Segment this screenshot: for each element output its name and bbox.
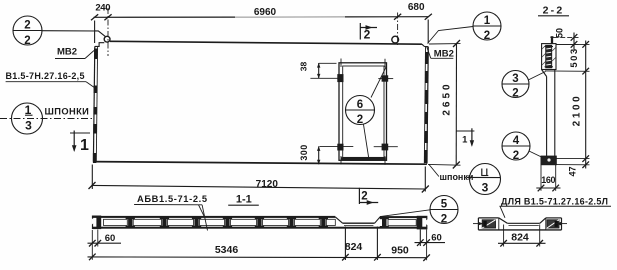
svg-text:В1.5-7Н.27.16-2,5: В1.5-7Н.27.16-2,5	[6, 71, 85, 81]
dimension 300 vertical	[317, 146, 320, 164]
balloon 1/2 top-right	[428, 12, 502, 44]
hatch in head	[542, 46, 556, 66]
svg-text:3: 3	[482, 180, 489, 194]
right dimension line 503/2100/47	[545, 41, 590, 169]
embed plate bottom-left of opening	[320, 144, 354, 151]
svg-text:шпонки: шпонки	[440, 172, 474, 182]
svg-text:300: 300	[299, 144, 309, 160]
dimension 60 right	[415, 230, 446, 261]
balloon 1/3 shponki left	[0, 103, 94, 134]
svg-text:1: 1	[80, 137, 89, 154]
svg-text:50: 50	[555, 28, 565, 38]
svg-text:2-2: 2-2	[543, 5, 565, 17]
dimension 160	[536, 165, 560, 191]
section 2-2	[502, 5, 590, 192]
svg-text:МВ2: МВ2	[57, 46, 77, 57]
right end block with embed	[546, 218, 567, 230]
shear keys left edge	[93, 49, 98, 164]
cells row 1	[104, 219, 417, 225]
section cut mark 2 top	[360, 23, 377, 40]
dimension 60 left	[88, 230, 122, 260]
svg-text:160: 160	[541, 175, 555, 185]
svg-text:2100: 2100	[571, 94, 582, 127]
svg-text:7120: 7120	[256, 179, 279, 190]
balloon 4/2	[502, 132, 543, 160]
label shponki right	[429, 164, 439, 176]
node top-right corner	[422, 44, 428, 47]
ribs	[126, 217, 389, 228]
embed plate bottom-right of opening	[374, 144, 398, 151]
wire panel left edge double	[93, 46, 94, 161]
svg-text:47: 47	[568, 166, 578, 176]
svg-text:2: 2	[357, 114, 363, 126]
dimension 2650 vertical right	[428, 40, 461, 169]
svg-text:60: 60	[105, 233, 116, 244]
svg-text:2: 2	[512, 88, 518, 100]
svg-text:240: 240	[95, 2, 110, 13]
section cut mark 2 bottom	[359, 188, 378, 205]
dimension 50	[553, 33, 578, 51]
wire top dimension line 240/6960/680	[91, 8, 432, 56]
svg-text:2: 2	[364, 27, 371, 41]
svg-text:5346: 5346	[215, 244, 239, 256]
svg-text:ШПОНКИ: ШПОНКИ	[45, 107, 90, 117]
svg-text:5: 5	[441, 198, 448, 210]
balloon 3/2	[502, 71, 546, 98]
stub on head	[551, 36, 553, 43]
right end block	[417, 216, 427, 228]
svg-text:ДЛЯ В1.5-71.27.16-2.5Л: ДЛЯ В1.5-71.27.16-2.5Л	[501, 196, 608, 206]
svg-text:1: 1	[25, 103, 32, 117]
door opening bottom thick band	[341, 157, 386, 160]
balloon 5/2	[380, 196, 458, 224]
dimension 38 vertical	[317, 63, 337, 79]
svg-text:824: 824	[345, 241, 363, 253]
wire panel right edge double	[427, 47, 428, 164]
body strip	[542, 70, 555, 152]
head block	[542, 44, 556, 70]
svg-text:2: 2	[24, 35, 30, 47]
svg-text:2: 2	[441, 214, 447, 226]
wire panel top edge	[110, 41, 422, 44]
wire panel bottom edge	[93, 162, 427, 165]
section cut mark 1 left	[70, 131, 90, 153]
svg-text:2650: 2650	[442, 81, 453, 115]
svg-text:АБВ1.5-71-2.5: АБВ1.5-71-2.5	[137, 194, 207, 204]
svg-text:950: 950	[391, 244, 409, 256]
balloon 2/2 top-left	[13, 16, 98, 45]
svg-text:3: 3	[512, 73, 518, 85]
svg-text:4: 4	[513, 135, 520, 147]
dimension 824 bottom right	[498, 225, 546, 247]
lifting loop left (M8 embed)	[104, 36, 110, 42]
svg-text:6960: 6960	[254, 7, 277, 18]
piece outline	[478, 218, 561, 230]
svg-text:3: 3	[25, 119, 32, 133]
svg-text:2: 2	[24, 19, 30, 31]
svg-text:60: 60	[431, 233, 442, 244]
door opening corner overshoot ticks	[341, 59, 385, 165]
lifting loop right	[392, 36, 399, 43]
section 1-1 bar	[92, 216, 428, 229]
embed plate top-left of opening	[310, 74, 343, 82]
door opening inner rect	[343, 66, 384, 157]
bolt insert in head	[545, 45, 554, 68]
dip over door opening	[335, 217, 342, 223]
svg-text:2: 2	[361, 191, 367, 203]
shear keys right edge	[425, 52, 429, 163]
panel outline plan view	[93, 31, 428, 164]
svg-text:38: 38	[299, 62, 309, 72]
svg-text:503: 503	[569, 47, 580, 67]
left end block with embed	[473, 218, 499, 230]
left end block	[93, 216, 101, 228]
dimension 7120 bottom of plan	[89, 165, 429, 193]
svg-text:1-1: 1-1	[236, 194, 252, 206]
svg-text:1: 1	[484, 15, 491, 27]
embed plate top-right of opening	[378, 75, 393, 81]
node top-left corner notch	[95, 31, 106, 37]
svg-text:824: 824	[511, 232, 529, 244]
main dimension row 5346/824/950	[88, 227, 430, 262]
section cut mark 1 right	[456, 128, 474, 147]
svg-text:1: 1	[462, 135, 468, 146]
dimensions below section 1-1	[88, 227, 446, 262]
bar outline and plates	[92, 216, 335, 218]
balloon 11/3 shponki right	[467, 164, 501, 195]
balloon 6/2 door opening	[346, 67, 387, 159]
svg-text:680: 680	[408, 2, 425, 13]
door opening outer rect	[339, 63, 387, 161]
svg-text:6: 6	[357, 99, 363, 111]
svg-text:МВ2: МВ2	[434, 48, 454, 59]
svg-text:2: 2	[513, 150, 519, 162]
foot block	[541, 152, 556, 165]
svg-text:2: 2	[484, 30, 490, 42]
bottom right piece	[473, 196, 611, 246]
